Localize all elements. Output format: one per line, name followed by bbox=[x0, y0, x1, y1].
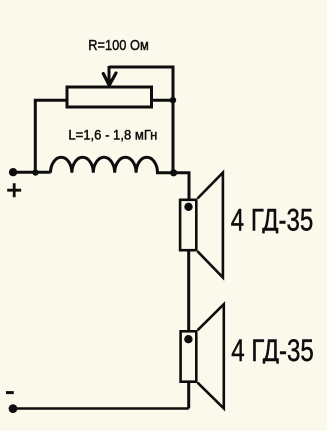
svg-text:L=1,6 - 1,8 мГн: L=1,6 - 1,8 мГн bbox=[68, 128, 157, 143]
svg-text:4 ГД-35: 4 ГД-35 bbox=[231, 203, 313, 238]
svg-text:R=100 Ом: R=100 Ом bbox=[88, 37, 149, 54]
svg-text:4 ГД-35: 4 ГД-35 bbox=[231, 333, 313, 368]
